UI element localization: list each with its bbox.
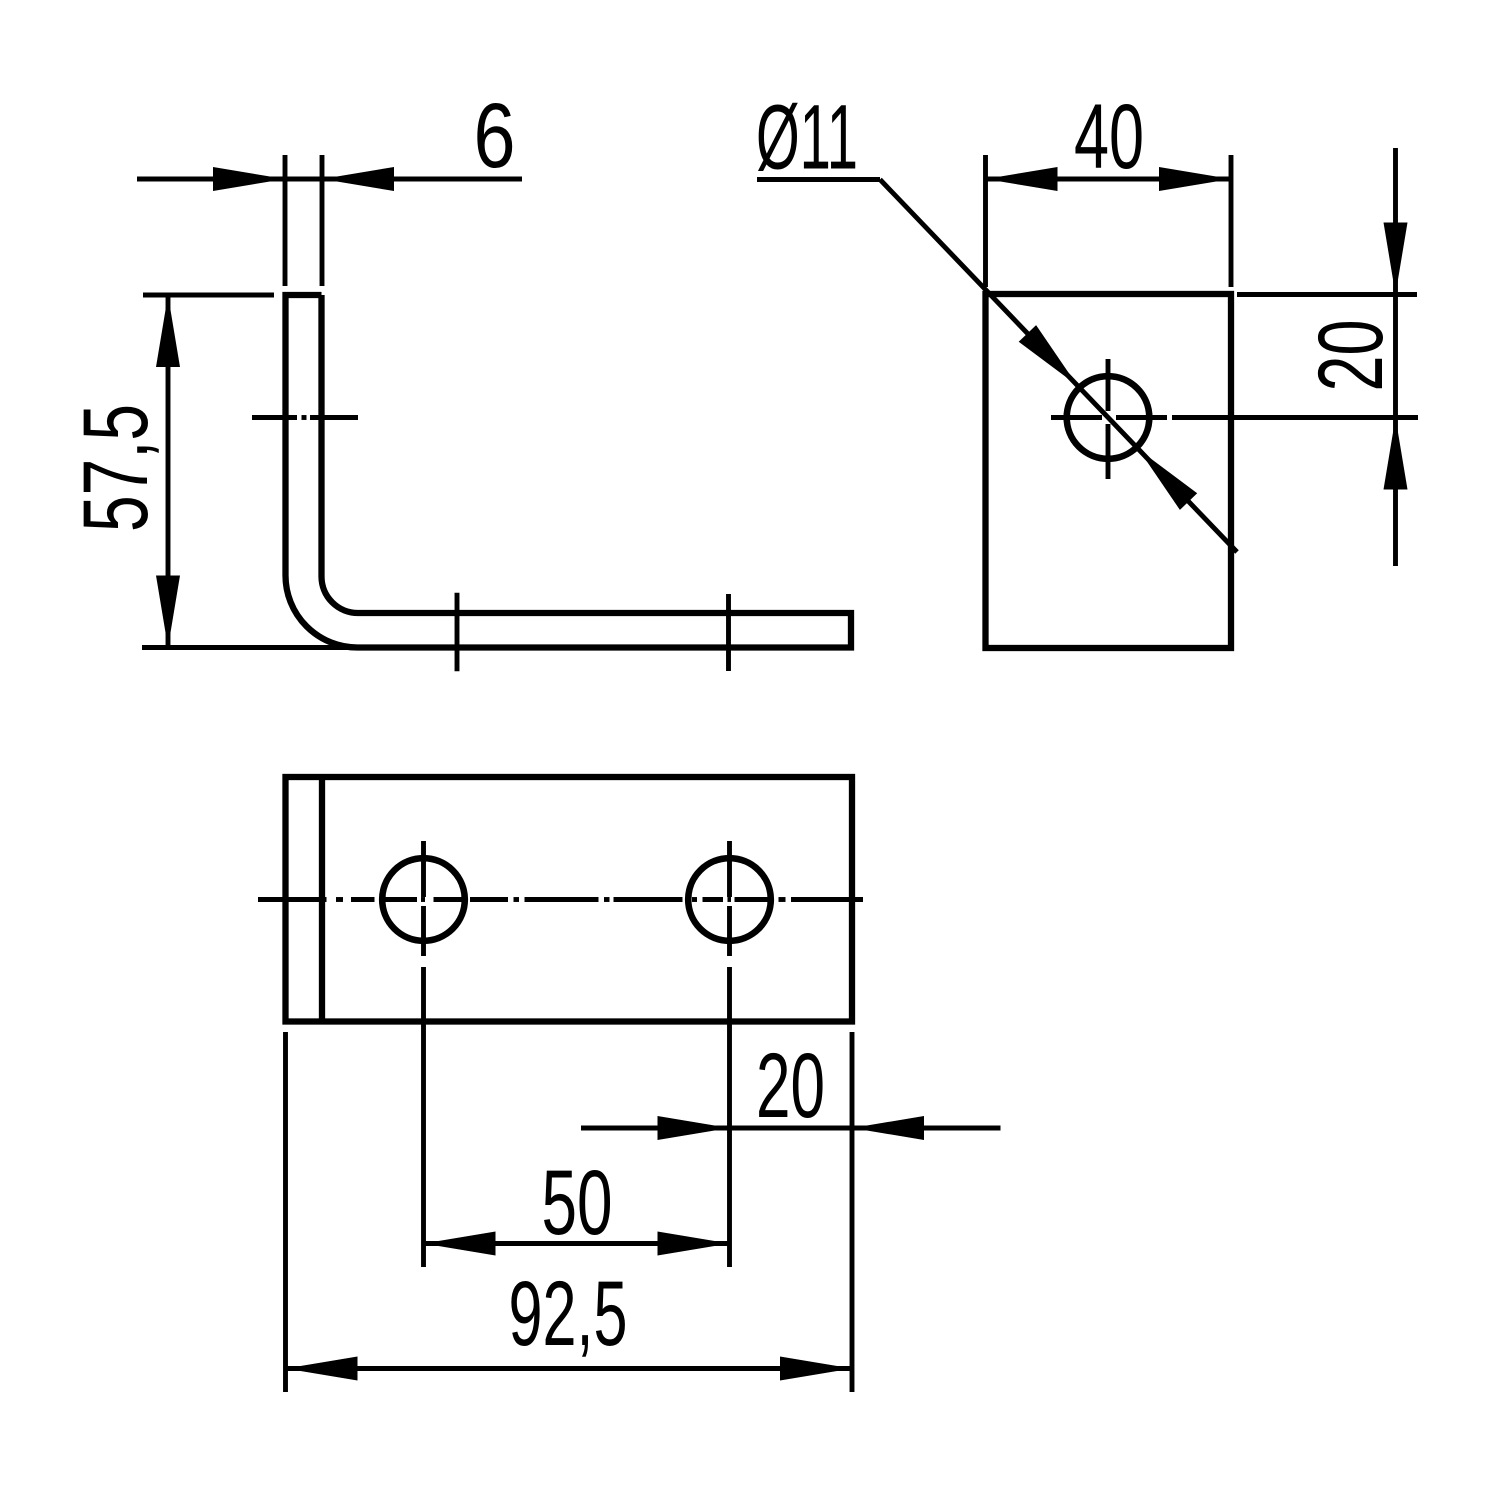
svg-text:20: 20 [756,1035,825,1137]
svg-text:92,5: 92,5 [509,1263,628,1365]
svg-text:20: 20 [1300,320,1402,392]
svg-text:Ø11: Ø11 [756,87,858,189]
svg-text:6: 6 [474,85,516,187]
svg-text:57,5: 57,5 [65,404,167,532]
svg-text:40: 40 [1074,86,1144,188]
svg-text:50: 50 [542,1152,613,1254]
